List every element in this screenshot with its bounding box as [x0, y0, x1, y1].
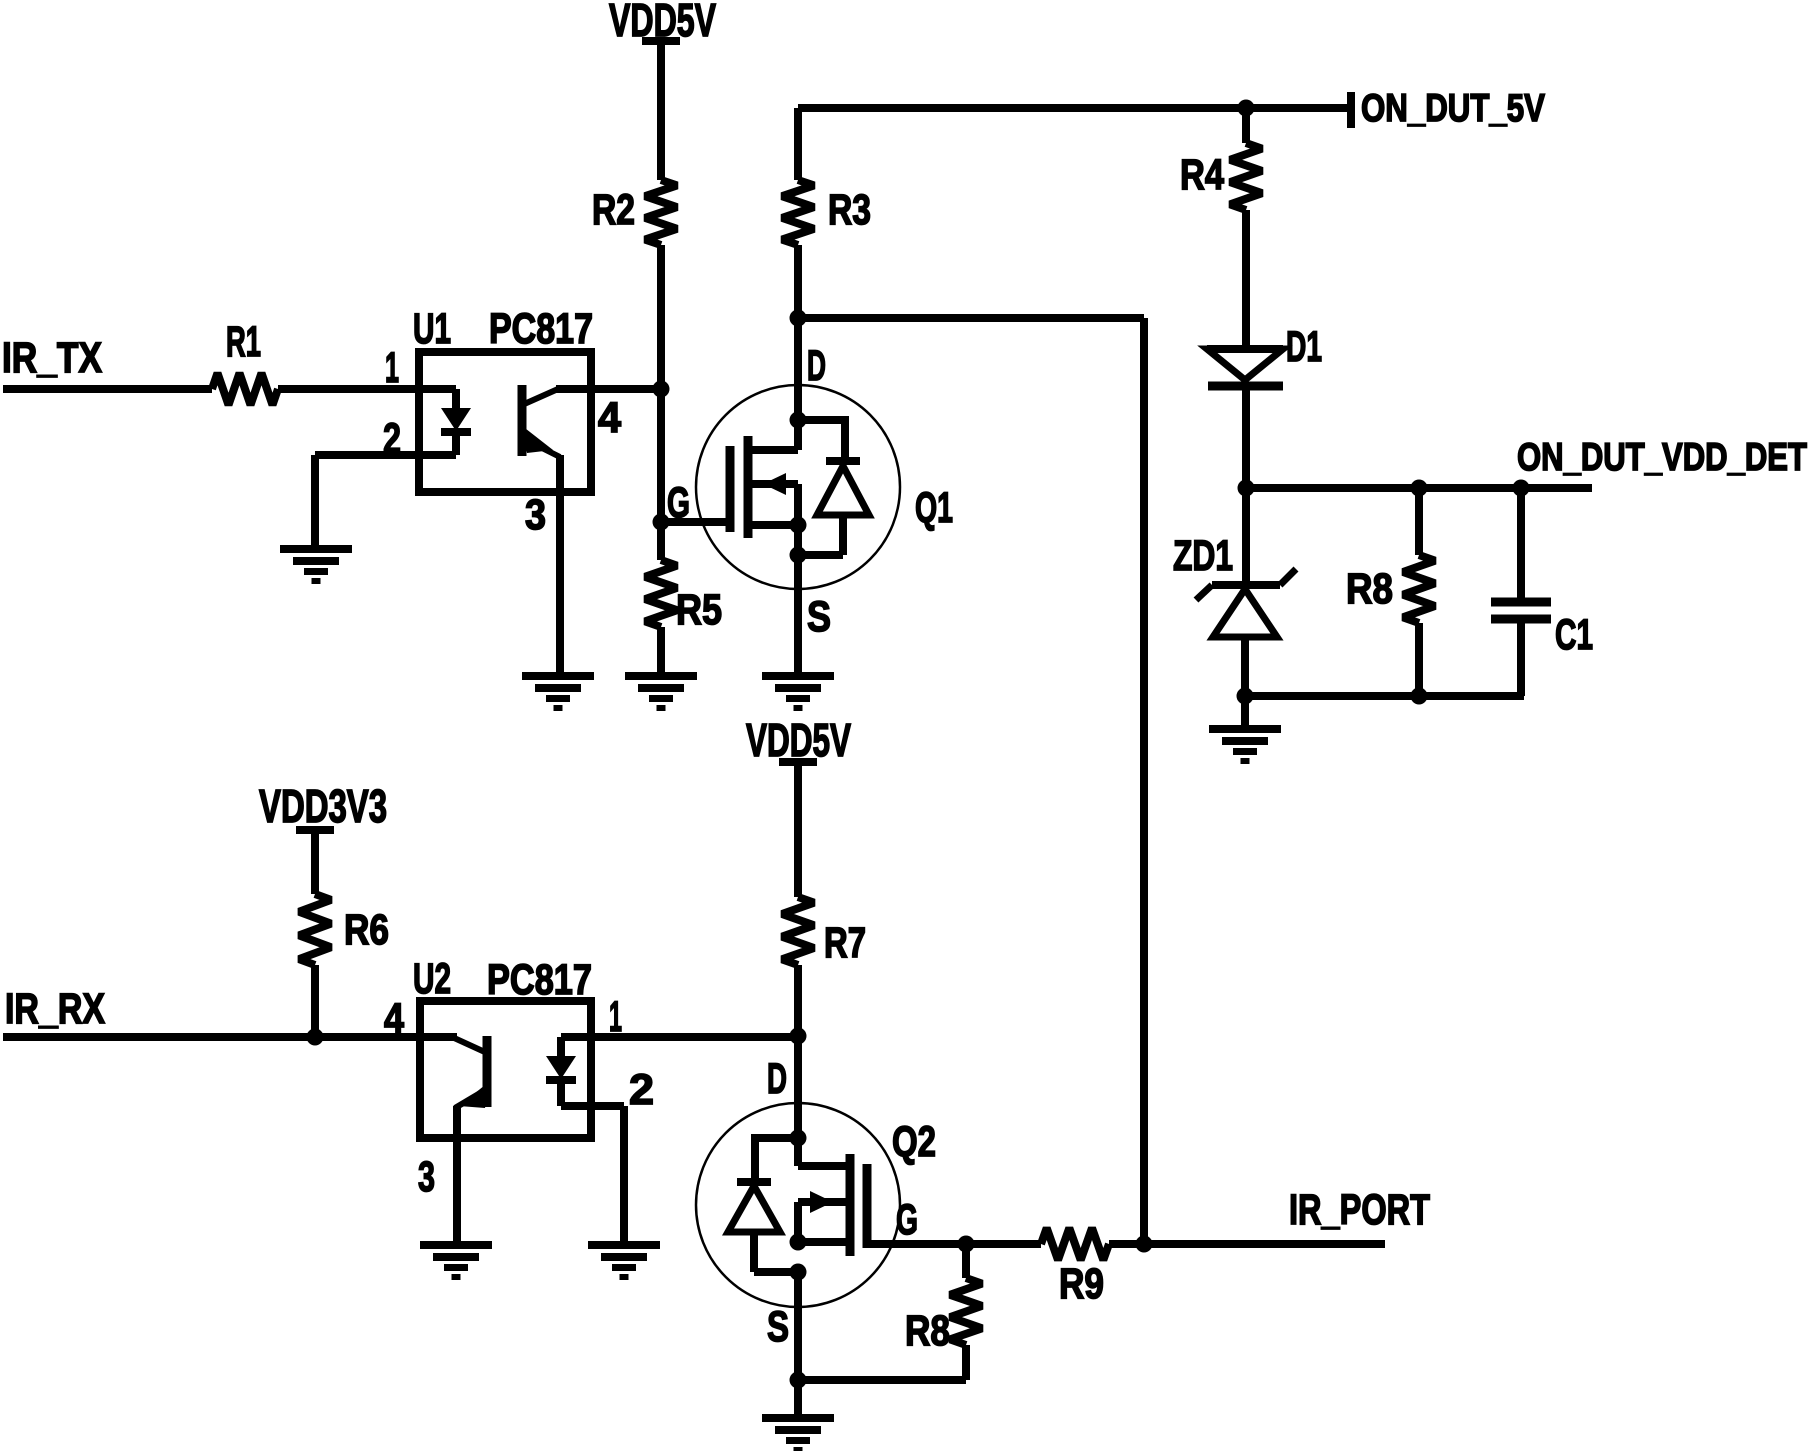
svg-text:IR_RX: IR_RX — [5, 985, 105, 1033]
svg-text:R9: R9 — [1059, 1260, 1104, 1308]
svg-text:PC817: PC817 — [489, 305, 593, 353]
svg-text:R8: R8 — [1346, 565, 1393, 613]
svg-text:D: D — [807, 342, 826, 390]
svg-text:IR_PORT: IR_PORT — [1289, 1186, 1430, 1234]
svg-text:D: D — [767, 1055, 787, 1103]
svg-text:3: 3 — [525, 491, 546, 539]
svg-text:ZD1: ZD1 — [1173, 532, 1233, 580]
svg-text:R2: R2 — [592, 186, 635, 234]
svg-text:3: 3 — [418, 1153, 435, 1201]
svg-text:1: 1 — [385, 344, 399, 392]
svg-text:ON_DUT_VDD_DET: ON_DUT_VDD_DET — [1517, 436, 1807, 479]
svg-text:IR_TX: IR_TX — [2, 334, 102, 382]
svg-text:R3: R3 — [828, 186, 871, 234]
svg-text:ON_DUT_5V: ON_DUT_5V — [1361, 87, 1545, 130]
svg-text:U2: U2 — [413, 955, 451, 1003]
svg-text:R1: R1 — [226, 318, 261, 366]
svg-text:R8: R8 — [905, 1307, 950, 1355]
svg-text:S: S — [807, 593, 831, 641]
svg-text:R7: R7 — [824, 919, 866, 967]
svg-text:Q1: Q1 — [915, 484, 953, 532]
svg-text:4: 4 — [384, 995, 404, 1043]
svg-text:R5: R5 — [676, 586, 722, 634]
svg-text:PC817: PC817 — [487, 956, 592, 1004]
svg-text:Q2: Q2 — [892, 1118, 936, 1166]
svg-text:D1: D1 — [1286, 323, 1322, 371]
svg-text:S: S — [767, 1303, 789, 1351]
svg-text:R6: R6 — [344, 906, 389, 954]
svg-text:VDD3V3: VDD3V3 — [259, 780, 387, 832]
svg-text:R4: R4 — [1180, 151, 1224, 199]
svg-text:G: G — [896, 1196, 918, 1244]
svg-text:U1: U1 — [413, 305, 451, 353]
svg-text:4: 4 — [598, 394, 621, 442]
svg-text:C1: C1 — [1555, 611, 1593, 659]
svg-text:2: 2 — [629, 1066, 654, 1114]
